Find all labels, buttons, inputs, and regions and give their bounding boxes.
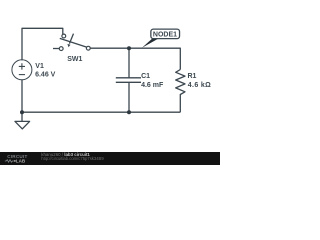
svg-text:6.46 V: 6.46 V (35, 72, 56, 79)
svg-text:LAB: LAB (16, 159, 26, 164)
svg-text:SW1: SW1 (67, 56, 82, 63)
svg-text:R1: R1 (188, 73, 197, 80)
svg-text:4.6 kΩ: 4.6 kΩ (188, 82, 211, 89)
svg-text:htip://circuitlab.com/c75p7sk3: htip://circuitlab.com/c75p7sk34B9 (41, 156, 104, 161)
svg-text:C1: C1 (141, 73, 150, 80)
svg-text:V1: V1 (35, 63, 44, 70)
svg-text:4.6 mF: 4.6 mF (141, 82, 164, 89)
svg-text:NODE1: NODE1 (153, 32, 177, 39)
